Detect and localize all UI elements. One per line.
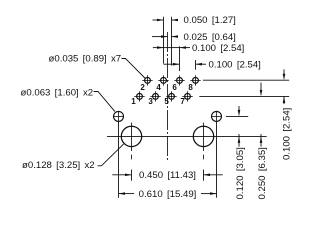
svg-text:7: 7	[180, 97, 185, 106]
dim 0.450 left arrow	[112, 174, 131, 176]
dim 0.610 left arrow	[119, 192, 126, 195]
large hole left vertical centerline	[131, 123, 133, 151]
pin 8 hole	[190, 75, 200, 85]
dimension 0.025 line left arrow	[152, 36, 168, 38]
pin 2 hole	[142, 75, 152, 85]
svg-text:0.100 [2.54]: 0.100 [2.54]	[281, 108, 292, 160]
svg-text:0.250 [6.35]: 0.250 [6.35]	[257, 147, 268, 199]
leader medium holes	[94, 92, 115, 112]
dimension 0.100 top row right arrow	[180, 47, 191, 49]
dim 0.450 right bar	[203, 170, 205, 181]
dim 0.100 right top arrow	[283, 69, 285, 74]
svg-text:ø0.035 [0.89] x7: ø0.035 [0.89] x7	[49, 53, 122, 64]
pin 4 hole	[158, 75, 168, 85]
dimension 0.100 top row inner line	[164, 47, 180, 49]
large hole right vertical centerline	[203, 123, 205, 151]
svg-text:2: 2	[140, 83, 145, 92]
svg-text:8: 8	[188, 83, 193, 92]
extension line pin4 column	[163, 17, 165, 64]
svg-text:0.610 [15.49]: 0.610 [15.49]	[139, 189, 197, 200]
dim 0.120 bottom line and arrow	[238, 134, 240, 147]
svg-text:0.100 [2.54]: 0.100 [2.54]	[209, 59, 261, 70]
svg-text:0.450 [11.43]: 0.450 [11.43]	[139, 170, 196, 181]
horizontal line through large holes	[107, 135, 267, 137]
leader pitch holes	[122, 59, 146, 79]
pin 7 hole	[182, 91, 192, 101]
large hole left	[121, 126, 141, 146]
dim 0.450 right arrow	[204, 174, 223, 176]
medium hole left	[113, 111, 124, 122]
dimension 0.100 second right arrow	[196, 63, 207, 65]
medium hole left extension line down	[118, 122, 120, 198]
dimension 0.050 line left arrow	[153, 19, 164, 21]
leader large holes	[98, 144, 124, 166]
vertical centerline	[167, 32, 169, 160]
extension line pin8 column	[195, 60, 197, 70]
svg-text:ø0.128 [3.25] x2: ø0.128 [3.25] x2	[22, 160, 95, 171]
extension line pin6 column	[179, 46, 181, 71]
top row extension line right	[203, 79, 289, 81]
svg-text:5: 5	[164, 97, 169, 106]
bottom row extension line right	[199, 95, 289, 97]
svg-text:3: 3	[148, 97, 153, 106]
medium hole right	[211, 111, 222, 122]
dim 0.250 bottom line and arrow	[260, 134, 262, 147]
dim 0.250 top arrow	[260, 83, 262, 91]
dimension 0.050 line right arrow	[172, 19, 179, 21]
pin 6 hole	[174, 75, 184, 85]
pin 3 hole	[150, 91, 160, 101]
dimension 0.100 top row line left arrow	[153, 47, 164, 49]
svg-text:6: 6	[172, 83, 177, 92]
svg-text:4: 4	[156, 83, 161, 92]
svg-text:0.100 [2.54]: 0.100 [2.54]	[192, 43, 244, 54]
medium hole right extension line to dim	[226, 115, 248, 117]
svg-text:0.050 [1.27]: 0.050 [1.27]	[184, 15, 236, 26]
dimension 0.100 second line left arrow	[164, 63, 180, 65]
large hole right	[193, 126, 213, 146]
dim 0.450 left bar	[131, 170, 133, 181]
dim 0.100 right bottom arrow	[283, 96, 285, 104]
pin 5 hole	[166, 91, 176, 101]
pin 1 hole	[134, 91, 144, 101]
extension line pin5 column	[171, 17, 173, 66]
medium hole right extension line down	[216, 122, 218, 198]
dimension 0.025 line right arrow	[172, 36, 179, 38]
svg-text:ø0.063 [1.60] x2: ø0.063 [1.60] x2	[21, 88, 94, 99]
dim 0.610 right arrow	[210, 192, 217, 195]
svg-text:0.120 [3.05]: 0.120 [3.05]	[235, 147, 246, 199]
dim 0.120 top arrow	[238, 106, 240, 111]
svg-text:0.025 [0.64]: 0.025 [0.64]	[184, 32, 236, 43]
svg-text:1: 1	[131, 97, 136, 106]
